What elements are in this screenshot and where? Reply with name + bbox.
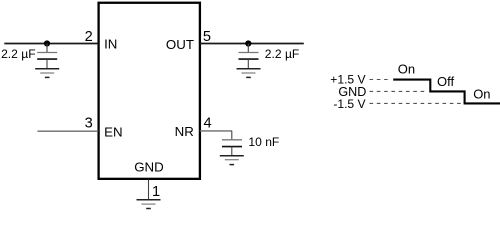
svg-text:NR: NR xyxy=(175,124,194,139)
svg-text:EN: EN xyxy=(104,124,122,139)
waveform enable signal (step down) xyxy=(393,80,500,104)
wire OUT (pin 5) xyxy=(200,43,304,45)
svg-text:IN: IN xyxy=(104,37,117,52)
capacitor C1 2.2 uF (input) xyxy=(37,44,57,69)
svg-text:2.2 µF: 2.2 µF xyxy=(265,47,300,61)
svg-text:10 nF: 10 nF xyxy=(248,135,279,149)
svg-text:OUT: OUT xyxy=(166,37,194,52)
svg-text:On: On xyxy=(398,62,415,77)
svg-text:Off: Off xyxy=(437,74,454,89)
wire IN (pin 2) xyxy=(4,43,98,45)
svg-text:GND: GND xyxy=(134,159,164,174)
op-amp U1 (LDO regulator body) xyxy=(99,3,200,179)
ground (output cap) xyxy=(237,69,261,78)
svg-text:2.2 µF: 2.2 µF xyxy=(1,47,36,61)
svg-text:On: On xyxy=(473,87,490,102)
capacitor C2 2.2 uF (output) xyxy=(239,44,259,69)
capacitor C3 10 nF (NR pin) xyxy=(222,131,242,156)
node junction dot at C2 xyxy=(245,40,251,46)
ground (input cap) xyxy=(35,69,59,78)
node junction dot at C1 xyxy=(44,40,50,46)
svg-text:3: 3 xyxy=(85,115,93,131)
svg-text:-1.5 V: -1.5 V xyxy=(333,97,366,111)
dashed level line -1.5 V xyxy=(370,102,462,104)
svg-text:1: 1 xyxy=(152,184,160,200)
wire GND pin 1 stem xyxy=(148,180,150,200)
svg-text:2: 2 xyxy=(85,29,93,45)
wire NR (pin 4) xyxy=(200,130,232,132)
svg-text:4: 4 xyxy=(204,115,212,131)
dashed level line GND xyxy=(370,90,428,92)
ground (NR cap) xyxy=(220,156,244,165)
dashed level line +1.5 V xyxy=(370,79,392,81)
wire EN (pin 3) xyxy=(38,130,99,132)
ground (pin 1) xyxy=(137,200,161,209)
